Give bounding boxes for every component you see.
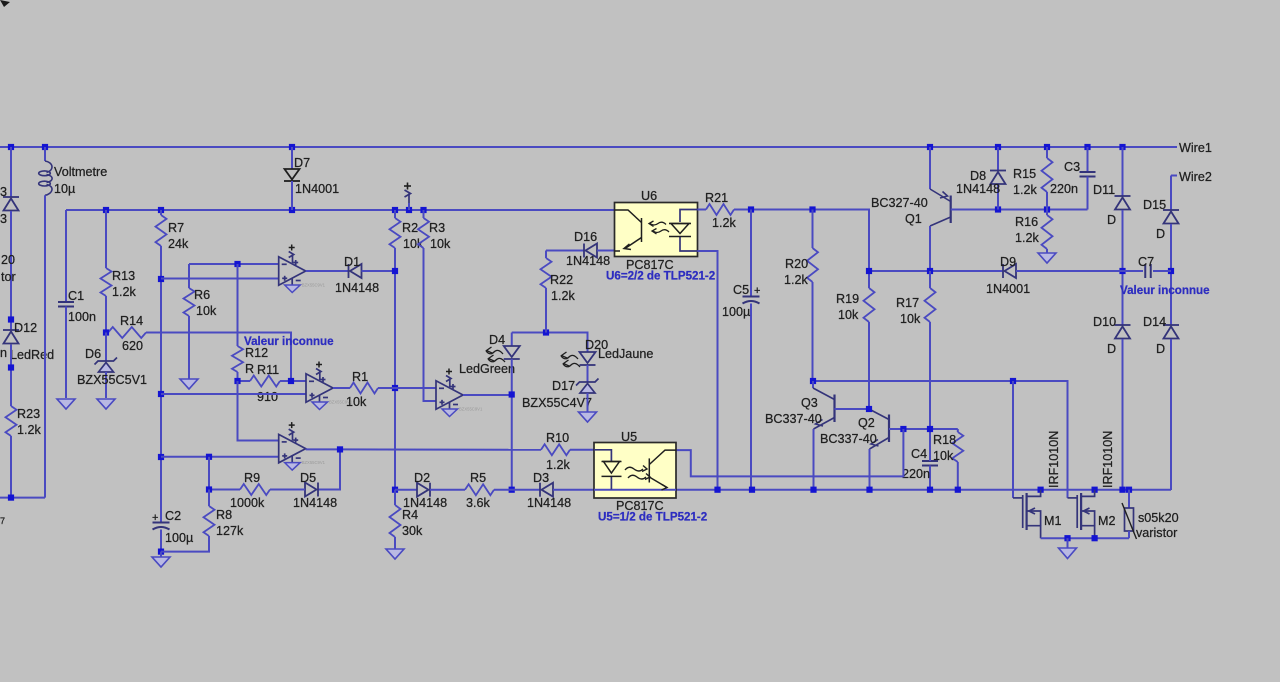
wire [1041, 537, 1129, 539]
svg-text:D: D [1107, 213, 1116, 227]
svg-text:D6: D6 [85, 347, 101, 361]
svg-text:n: n [0, 346, 7, 360]
diode D15 [1163, 210, 1179, 224]
capacitor C4 [922, 461, 938, 466]
op-amp U1 [279, 252, 306, 286]
svg-text:1N4148: 1N4148 [527, 496, 571, 510]
svg-text:D10: D10 [1093, 315, 1116, 329]
ground [1038, 253, 1056, 263]
svg-text:R19: R19 [836, 292, 859, 306]
wire [1170, 224, 1172, 325]
svg-text:7: 7 [0, 516, 5, 526]
svg-text:R14: R14 [120, 314, 143, 328]
svg-text:D7: D7 [294, 156, 310, 170]
varistor s05k20 [1128, 490, 1130, 508]
svg-text:R12: R12 [245, 346, 268, 360]
resistor R10 [541, 444, 570, 455]
wire [306, 270, 349, 272]
svg-text:D5: D5 [300, 471, 316, 485]
svg-text:C5: C5 [733, 283, 749, 297]
wire [869, 270, 1003, 272]
svg-text:1N4148: 1N4148 [566, 254, 610, 268]
svg-text:BC337-40: BC337-40 [765, 412, 822, 426]
svg-text:U5: U5 [621, 430, 637, 444]
resistor R22 [545, 251, 547, 259]
resistor R1 [333, 387, 350, 389]
svg-text:R1: R1 [352, 370, 368, 384]
wire [362, 270, 396, 272]
svg-text:BZX55C9V1: BZX55C9V1 [302, 283, 326, 288]
wire [463, 394, 512, 396]
wire [951, 209, 1088, 211]
svg-text:R9: R9 [244, 471, 260, 485]
diode D13 (clipped) [10, 147, 12, 197]
diode D10 [1115, 325, 1131, 339]
svg-text:D: D [1107, 342, 1116, 356]
wire [189, 263, 279, 265]
svg-text:+: + [152, 512, 158, 524]
diode D11 [1122, 147, 1124, 196]
svg-text:1.2k: 1.2k [1013, 183, 1038, 197]
svg-text:1.2k: 1.2k [712, 216, 737, 230]
optocoupler U6 [615, 203, 698, 257]
mosfet M2 [1068, 490, 1095, 539]
svg-text:D: D [1156, 227, 1165, 241]
wire [511, 359, 513, 490]
svg-text:10k: 10k [933, 449, 954, 463]
power V+ [408, 203, 410, 210]
svg-text:1000k: 1000k [230, 496, 265, 510]
mosfet M1 [1013, 490, 1041, 539]
zener D6 [105, 333, 107, 362]
resistor R17 [929, 271, 931, 288]
svg-text:tor: tor [1, 270, 16, 284]
svg-text:R15: R15 [1013, 167, 1036, 181]
svg-text:D2: D2 [414, 471, 430, 485]
svg-text:1N4148: 1N4148 [293, 496, 337, 510]
svg-text:D14: D14 [1143, 315, 1166, 329]
svg-text:R22: R22 [550, 273, 573, 287]
op-amp U4 [436, 376, 463, 410]
diode D12 [3, 330, 19, 344]
wire [161, 278, 279, 280]
svg-text:R11: R11 [257, 363, 279, 377]
svg-text:1.2k: 1.2k [784, 273, 809, 287]
wire [424, 248, 437, 401]
svg-text:R6: R6 [194, 288, 210, 302]
resistor R4 [394, 490, 396, 505]
svg-text:620: 620 [122, 339, 143, 353]
node Wire1 rail [0, 146, 1177, 148]
svg-text:BZX55C9V1: BZX55C9V1 [459, 407, 483, 412]
svg-text:100n: 100n [68, 310, 96, 324]
svg-text:Wire2: Wire2 [1179, 170, 1212, 184]
resistor R13 [105, 210, 107, 268]
svg-text:C3: C3 [1064, 160, 1080, 174]
op-amp U2 [306, 369, 333, 403]
capacitor C7 [1145, 264, 1151, 278]
diode D1 [349, 264, 362, 278]
svg-text:M2: M2 [1098, 514, 1116, 528]
svg-text:M1: M1 [1044, 514, 1062, 528]
svg-text:BC337-40: BC337-40 [820, 432, 877, 446]
svg-text:D3: D3 [533, 471, 549, 485]
svg-text:3: 3 [0, 185, 7, 199]
svg-text:10k: 10k [196, 304, 217, 318]
wire [1122, 210, 1124, 325]
svg-text:R5: R5 [470, 471, 486, 485]
svg-text:C1: C1 [68, 289, 84, 303]
svg-text:910: 910 [257, 390, 278, 404]
svg-text:220n: 220n [902, 467, 930, 481]
zener D17 [587, 365, 589, 382]
optocoupler U5 [594, 443, 676, 499]
resistor R8 [208, 490, 210, 507]
wire [1170, 339, 1172, 490]
ground [386, 549, 404, 559]
ground [1067, 538, 1069, 548]
wire [570, 449, 594, 451]
svg-text:R21: R21 [705, 191, 728, 205]
capacitor C1 [65, 210, 67, 302]
svg-text:s05k20: s05k20 [1138, 511, 1179, 525]
svg-text:C2: C2 [165, 509, 181, 523]
svg-text:10k: 10k [838, 308, 859, 322]
wire [1016, 270, 1143, 272]
svg-text:1.2k: 1.2k [1015, 231, 1040, 245]
wire [160, 246, 162, 523]
wire [734, 210, 869, 272]
svg-text:D: D [1156, 342, 1165, 356]
svg-text:1.2k: 1.2k [546, 458, 571, 472]
resistor R9 [240, 484, 270, 495]
wire rail2 [66, 209, 615, 211]
svg-text:20: 20 [1, 253, 15, 267]
svg-text:10k: 10k [900, 312, 921, 326]
svg-text:10k: 10k [430, 237, 451, 251]
diode D5 [305, 483, 318, 497]
resistor R16 [1046, 210, 1048, 216]
svg-text:R2: R2 [402, 221, 418, 235]
svg-text:1N4001: 1N4001 [986, 282, 1030, 296]
svg-text:R13: R13 [112, 269, 135, 283]
transistor Q2 [869, 409, 889, 449]
svg-text:R17: R17 [896, 296, 919, 310]
svg-text:R4: R4 [402, 508, 418, 522]
svg-text:D1: D1 [344, 255, 360, 269]
resistor R15 [1046, 147, 1048, 158]
svg-text:D4: D4 [489, 333, 505, 347]
svg-text:BZX55C5V1: BZX55C5V1 [77, 373, 147, 387]
diode D9 [1003, 264, 1016, 278]
svg-text:R20: R20 [785, 257, 808, 271]
svg-text:D16: D16 [574, 230, 597, 244]
wire [146, 333, 291, 382]
diode D2 [417, 483, 430, 497]
svg-text:10µ: 10µ [54, 182, 75, 196]
resistor R6 [188, 264, 190, 288]
transistor Q1 [929, 147, 931, 189]
wire [698, 251, 718, 490]
led D4 [511, 333, 513, 347]
wire [394, 248, 396, 490]
svg-text:D17: D17 [552, 379, 575, 393]
svg-text:BZX55C4V7: BZX55C4V7 [522, 396, 592, 410]
svg-text:U6=2/2 de TLP521-2: U6=2/2 de TLP521-2 [606, 270, 715, 283]
capacitor C3 [1087, 147, 1089, 172]
wire [395, 489, 417, 491]
svg-text:Wire1: Wire1 [1179, 141, 1212, 155]
resistor R21 [698, 209, 707, 211]
wire [1170, 176, 1172, 211]
svg-text:R: R [245, 362, 254, 376]
svg-text:+: + [754, 285, 760, 297]
svg-text:U6: U6 [641, 189, 657, 203]
diode D14 [1163, 325, 1179, 339]
svg-text:10k: 10k [403, 237, 424, 251]
svg-text:R7: R7 [168, 221, 184, 235]
wire [306, 449, 340, 489]
svg-text:C7: C7 [1138, 255, 1154, 269]
wire [676, 429, 903, 476]
svg-text:IRF1010N: IRF1010N [1101, 431, 1115, 488]
ground [97, 399, 115, 409]
resistor R5 [465, 484, 494, 495]
wire [1153, 270, 1171, 272]
ground [57, 399, 75, 409]
svg-text:1N4148: 1N4148 [335, 281, 379, 295]
wire [1012, 381, 1014, 498]
svg-text:D12: D12 [14, 321, 37, 335]
wire [813, 381, 1068, 498]
svg-text:LedGreen: LedGreen [459, 362, 515, 376]
transistor Q3 [812, 381, 814, 388]
wire [238, 381, 279, 441]
op-amp U3 [279, 429, 306, 463]
svg-text:IRF1010N: IRF1010N [1047, 431, 1061, 488]
wire [395, 387, 436, 389]
resistor R18 [952, 432, 963, 462]
wire [10, 211, 12, 330]
wire [0, 0, 10, 7]
svg-text:R18: R18 [933, 433, 956, 447]
svg-text:220n: 220n [1050, 182, 1078, 196]
svg-text:3.6k: 3.6k [466, 496, 491, 510]
inductor Voltmetre 10u [44, 147, 46, 161]
resistor R23 [6, 406, 17, 436]
svg-text:R16: R16 [1015, 215, 1038, 229]
svg-text:LedRed: LedRed [10, 348, 54, 362]
wire [1122, 339, 1124, 490]
wire [208, 457, 210, 490]
resistor R11 [238, 380, 251, 382]
diode D7 [291, 147, 293, 169]
svg-text:D11: D11 [1093, 183, 1115, 197]
svg-text:10k: 10k [346, 395, 367, 409]
svg-text:Q2: Q2 [858, 416, 875, 430]
capacitor C2 [153, 523, 170, 530]
svg-text:Valeur inconnue: Valeur inconnue [1120, 284, 1210, 297]
svg-text:varistor: varistor [1136, 526, 1177, 540]
svg-text:D15: D15 [1143, 198, 1166, 212]
diode D8 [997, 147, 999, 171]
svg-text:1N4148: 1N4148 [956, 182, 1000, 196]
wire [512, 333, 588, 353]
wire [270, 489, 305, 491]
capacitor C5 [750, 210, 752, 297]
svg-text:Q3: Q3 [801, 396, 818, 410]
svg-text:R3: R3 [429, 221, 445, 235]
svg-text:U5=1/2 de TLP521-2: U5=1/2 de TLP521-2 [598, 511, 707, 524]
svg-text:BC327-40: BC327-40 [871, 196, 928, 210]
wire [161, 393, 306, 395]
svg-text:R10: R10 [546, 431, 569, 445]
svg-text:BZX55C9V1: BZX55C9V1 [302, 460, 326, 465]
svg-text:Q1: Q1 [905, 212, 922, 226]
resistor R2 [394, 210, 396, 218]
wire [209, 489, 240, 491]
svg-text:D8: D8 [970, 169, 986, 183]
wire [161, 456, 279, 458]
resistor R20 [812, 210, 814, 249]
svg-text:R8: R8 [216, 508, 232, 522]
svg-text:24k: 24k [168, 237, 189, 251]
svg-text:127k: 127k [216, 524, 244, 538]
wire [44, 195, 46, 497]
diode D16 [546, 250, 584, 252]
ground [160, 552, 162, 557]
svg-text:1N4001: 1N4001 [295, 182, 339, 196]
led D20 [580, 352, 596, 365]
wire [0, 497, 45, 499]
svg-text:100µ: 100µ [722, 305, 750, 319]
svg-text:30k: 30k [402, 524, 423, 538]
ground [587, 393, 589, 412]
svg-text:3: 3 [0, 212, 7, 226]
wire [597, 250, 615, 252]
svg-text:R23: R23 [17, 407, 40, 421]
resistor R19 [868, 271, 870, 288]
svg-text:1.2k: 1.2k [17, 423, 42, 437]
wire [340, 448, 541, 450]
svg-text:Voltmetre: Voltmetre [54, 165, 107, 179]
resistor R14 [108, 327, 146, 338]
svg-text:C4: C4 [911, 447, 927, 461]
svg-text:1.2k: 1.2k [551, 289, 576, 303]
wire [494, 489, 540, 491]
svg-text:1.2k: 1.2k [112, 285, 137, 299]
svg-text:LedJaune: LedJaune [598, 347, 653, 361]
resistor R7 [160, 210, 162, 215]
diode D3 [540, 483, 553, 497]
svg-text:D9: D9 [1000, 255, 1016, 269]
resistor R3 [423, 210, 425, 218]
wire [553, 489, 1171, 491]
svg-text:100µ: 100µ [165, 531, 193, 545]
resistor R12 [237, 264, 239, 346]
wire [430, 489, 465, 491]
ground [180, 379, 198, 389]
